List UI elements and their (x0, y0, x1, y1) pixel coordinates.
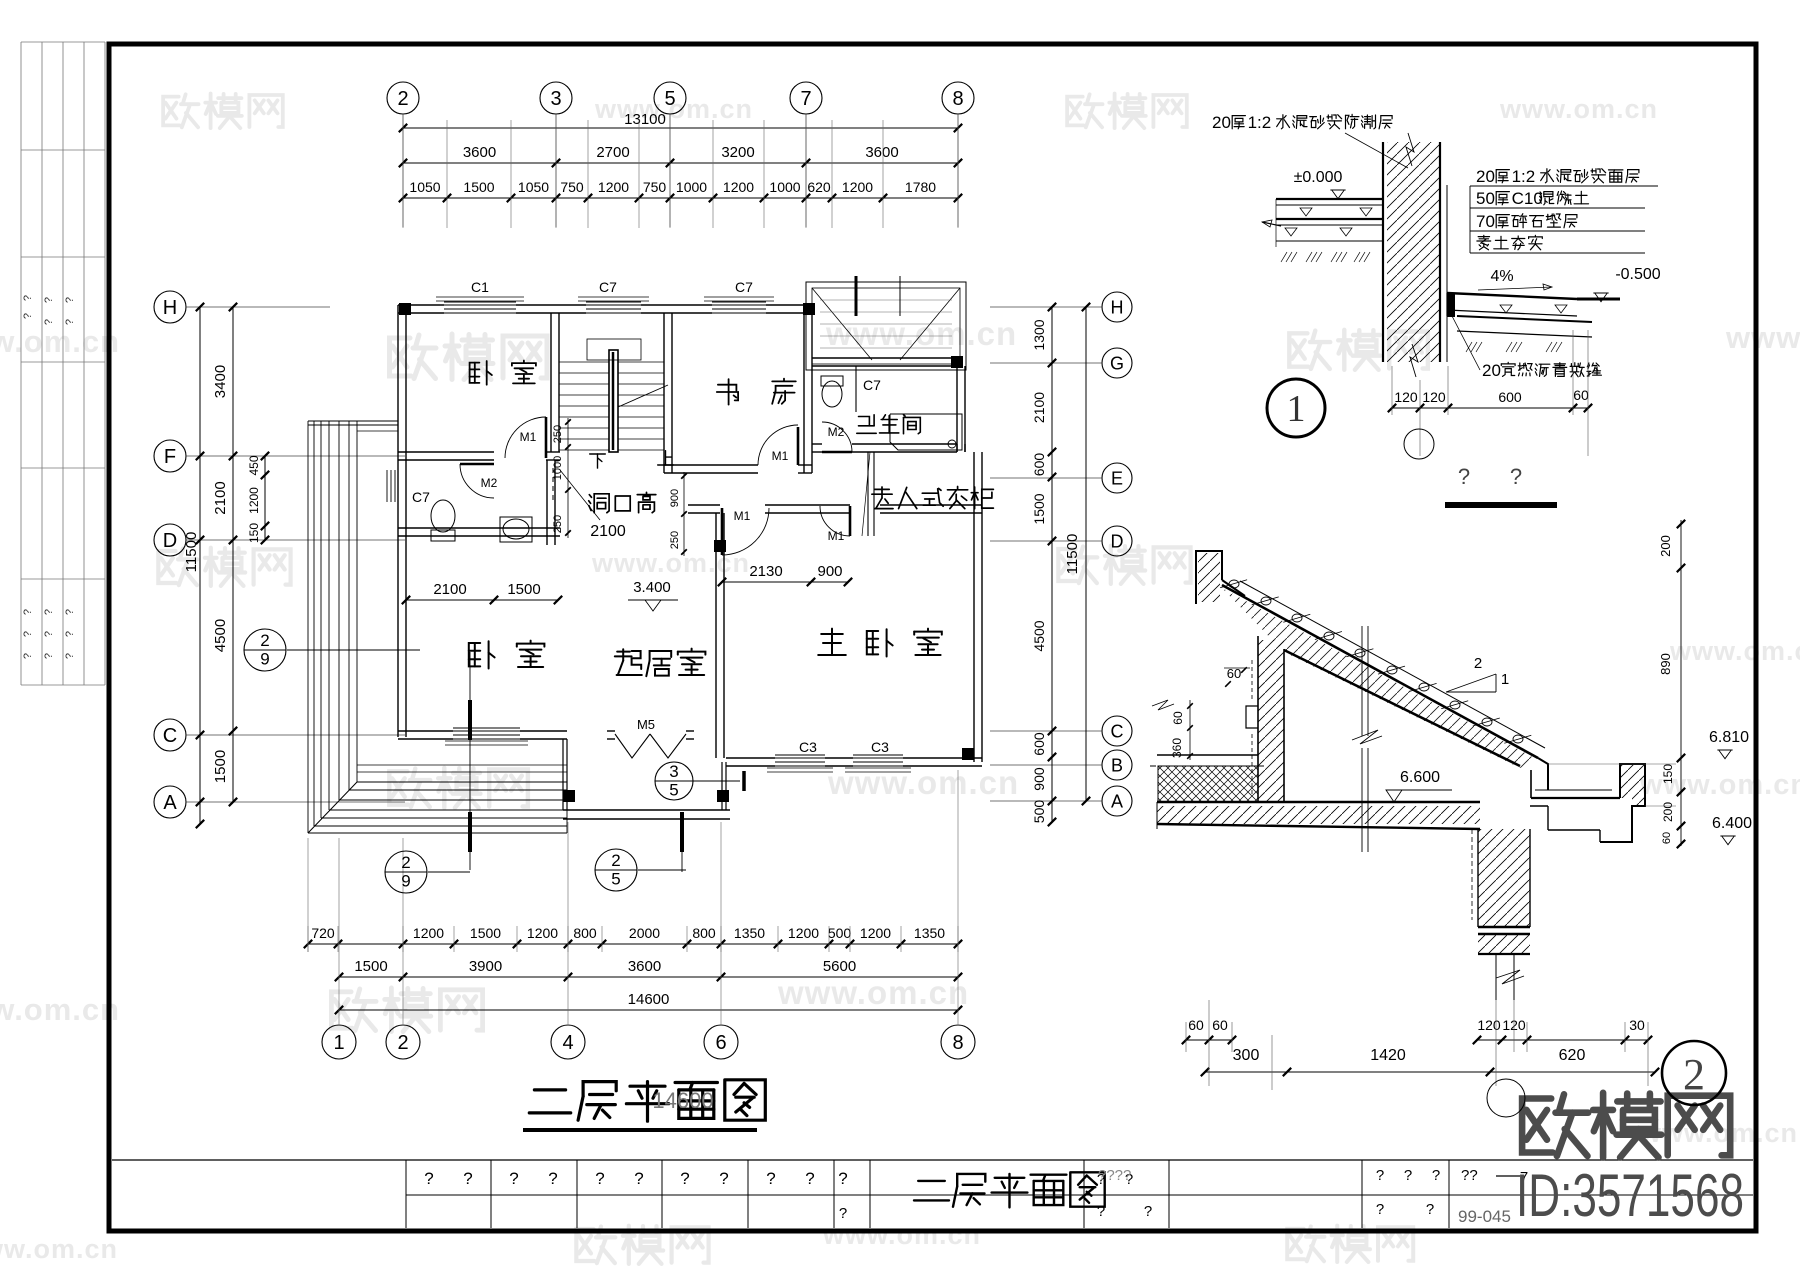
svg-text:C1: C1 (471, 279, 489, 295)
svg-text:1500: 1500 (212, 750, 229, 783)
svg-text:?: ? (64, 631, 76, 637)
svg-text:6.810: 6.810 (1709, 729, 1749, 746)
svg-text:13100: 13100 (624, 111, 666, 128)
svg-text:9: 9 (260, 650, 269, 669)
svg-text:450: 450 (247, 455, 261, 475)
svg-text:60: 60 (1188, 1017, 1204, 1033)
svg-text:4500: 4500 (212, 619, 229, 652)
svg-text:?: ? (766, 1169, 775, 1188)
svg-text:G: G (1110, 353, 1124, 373)
svg-text:F: F (164, 446, 176, 468)
svg-text:4%: 4% (1490, 268, 1513, 285)
svg-text:?: ? (1432, 1167, 1440, 1184)
svg-text:6: 6 (715, 1032, 726, 1054)
svg-text:1050: 1050 (409, 179, 440, 195)
svg-text:?: ? (463, 1169, 472, 1188)
svg-text:C7: C7 (863, 377, 881, 393)
svg-text:www.om.cn: www.om.cn (1499, 94, 1658, 124)
svg-text:?: ? (64, 609, 76, 615)
svg-text:5: 5 (669, 781, 678, 800)
svg-text:2: 2 (611, 851, 620, 870)
svg-text:1000: 1000 (552, 456, 564, 480)
svg-text:?: ? (595, 1169, 604, 1188)
svg-text:?: ? (424, 1169, 433, 1188)
svg-text:1200: 1200 (247, 487, 261, 514)
svg-text:A: A (1111, 791, 1123, 811)
svg-text:5: 5 (664, 88, 675, 110)
svg-text:?: ? (1144, 1203, 1152, 1220)
svg-text:720: 720 (311, 925, 335, 941)
svg-text:?: ? (43, 319, 55, 325)
svg-text:?: ? (1510, 464, 1522, 489)
svg-text:M1: M1 (734, 509, 751, 523)
svg-text:ID:3571568: ID:3571568 (1516, 1162, 1744, 1229)
svg-text:14600: 14600 (652, 1088, 713, 1113)
svg-text:M1: M1 (772, 449, 789, 463)
svg-text:?: ? (22, 313, 34, 319)
svg-text:800: 800 (692, 925, 716, 941)
svg-text:14600: 14600 (628, 991, 670, 1008)
svg-text:20: 20 (1482, 361, 1501, 380)
svg-text:3: 3 (669, 762, 678, 781)
svg-text:4500: 4500 (1031, 620, 1047, 651)
svg-text:200: 200 (1661, 802, 1675, 822)
svg-text:900: 900 (817, 563, 842, 580)
svg-text:?: ? (22, 653, 34, 659)
svg-text:?: ? (548, 1169, 557, 1188)
svg-text:99-045: 99-045 (1458, 1207, 1511, 1226)
svg-text:60: 60 (1212, 1017, 1228, 1033)
svg-text:1780: 1780 (905, 179, 936, 195)
svg-text:1500: 1500 (354, 958, 387, 975)
svg-text:?: ? (22, 631, 34, 637)
svg-text:?: ? (43, 297, 55, 303)
svg-text:1200: 1200 (860, 925, 891, 941)
svg-text:50: 50 (1476, 189, 1495, 208)
svg-text:1420: 1420 (1370, 1047, 1406, 1064)
svg-text:www.om.cn: www.om.cn (1725, 320, 1800, 355)
svg-text:?: ? (1404, 1167, 1412, 1184)
svg-text:600: 600 (1031, 732, 1047, 756)
svg-text:300: 300 (1233, 1047, 1260, 1064)
svg-text:M1: M1 (520, 430, 537, 444)
svg-text:1050: 1050 (518, 179, 549, 195)
svg-text:?: ? (43, 653, 55, 659)
svg-text:M2: M2 (481, 476, 498, 490)
svg-text:?: ? (838, 1169, 847, 1188)
svg-text:www.om.cn: www.om.cn (777, 974, 969, 1011)
svg-text:20: 20 (1476, 167, 1495, 186)
svg-text:750: 750 (560, 179, 584, 195)
svg-text:M2: M2 (828, 425, 845, 439)
svg-text:www.om.cn: www.om.cn (827, 764, 1019, 801)
svg-text:1500: 1500 (1031, 493, 1047, 524)
svg-text:B: B (1111, 755, 1123, 775)
svg-text:?: ? (1426, 1201, 1434, 1218)
svg-text:60: 60 (1661, 832, 1673, 844)
svg-text:C7: C7 (412, 489, 430, 505)
svg-text:3: 3 (550, 88, 561, 110)
svg-text:70: 70 (1476, 212, 1495, 231)
svg-text:120: 120 (1477, 1017, 1501, 1033)
svg-text:30: 30 (1629, 1017, 1645, 1033)
svg-text:500: 500 (1031, 800, 1047, 824)
svg-text:±0.000: ±0.000 (1294, 169, 1343, 186)
svg-text:??: ?? (1461, 1167, 1478, 1184)
svg-text:150: 150 (1661, 764, 1675, 784)
svg-text:5600: 5600 (823, 958, 856, 975)
svg-text:2: 2 (401, 853, 410, 872)
svg-text:C: C (163, 725, 177, 747)
svg-text:www.om.cn: www.om.cn (1669, 636, 1800, 666)
svg-text:1200: 1200 (788, 925, 819, 941)
svg-text:2100: 2100 (1031, 392, 1047, 423)
svg-text:3400: 3400 (212, 365, 229, 398)
svg-text:2100: 2100 (590, 523, 626, 540)
svg-text:3.400: 3.400 (633, 579, 671, 596)
svg-text:4: 4 (562, 1032, 573, 1054)
svg-text:A: A (163, 792, 177, 814)
svg-text:890: 890 (1658, 653, 1673, 675)
svg-text:2700: 2700 (596, 144, 629, 161)
svg-text:8: 8 (952, 88, 963, 110)
svg-text:800: 800 (573, 925, 597, 941)
svg-text:www.om.cn: www.om.cn (0, 324, 120, 359)
svg-text:D: D (163, 530, 177, 552)
svg-text:?: ? (22, 295, 34, 301)
svg-text:200: 200 (1658, 535, 1673, 557)
svg-text:?: ? (43, 631, 55, 637)
svg-text:?: ? (509, 1169, 518, 1188)
svg-text:?: ? (64, 653, 76, 659)
svg-text:1: 1 (1501, 671, 1509, 688)
svg-text:?: ? (1376, 1201, 1384, 1218)
svg-text:60: 60 (1171, 711, 1185, 725)
svg-text:?: ? (43, 609, 55, 615)
svg-text:600: 600 (1498, 389, 1522, 405)
svg-text:H: H (1111, 297, 1124, 317)
svg-text:120: 120 (1394, 389, 1418, 405)
svg-text:1: 1 (1287, 388, 1306, 430)
svg-text:1000: 1000 (676, 179, 707, 195)
svg-text:H: H (163, 297, 177, 319)
svg-text:www.om.cn: www.om.cn (0, 1234, 118, 1264)
svg-text:1350: 1350 (914, 925, 945, 941)
svg-text:9: 9 (401, 872, 410, 891)
svg-text:-0.500: -0.500 (1615, 266, 1660, 283)
svg-text:2100: 2100 (433, 581, 466, 598)
svg-text:8: 8 (952, 1032, 963, 1054)
svg-text:www.om.cn: www.om.cn (591, 548, 750, 578)
svg-text:500: 500 (828, 925, 852, 941)
svg-text:?: ? (1376, 1167, 1384, 1184)
svg-text:M1: M1 (828, 529, 845, 543)
svg-text:1350: 1350 (734, 925, 765, 941)
svg-text:2100: 2100 (212, 481, 229, 514)
svg-text:1000: 1000 (769, 179, 800, 195)
svg-text:150: 150 (247, 523, 261, 543)
svg-text:?: ? (805, 1169, 814, 1188)
svg-text:www.om.cn: www.om.cn (0, 992, 120, 1027)
svg-text:?: ? (839, 1205, 847, 1222)
svg-text:6.600: 6.600 (1400, 769, 1440, 786)
svg-text:3600: 3600 (463, 144, 496, 161)
svg-text:6.400: 6.400 (1712, 815, 1752, 832)
svg-text:2: 2 (1683, 1050, 1705, 1099)
svg-text:620: 620 (807, 179, 831, 195)
svg-text:2000: 2000 (629, 925, 660, 941)
svg-text:E: E (1111, 468, 1123, 488)
svg-text:5: 5 (611, 870, 620, 889)
svg-text:360: 360 (1170, 738, 1184, 758)
svg-text:????: ???? (1098, 1167, 1131, 1184)
svg-text:C3: C3 (871, 739, 889, 755)
svg-text:250: 250 (669, 531, 681, 549)
svg-text:?: ? (634, 1169, 643, 1188)
svg-text:?: ? (22, 609, 34, 615)
svg-text:www.om.cn: www.om.cn (822, 1220, 981, 1250)
svg-text:3600: 3600 (865, 144, 898, 161)
svg-text:?: ? (1458, 464, 1470, 489)
svg-text:C7: C7 (735, 279, 753, 295)
svg-text:1200: 1200 (598, 179, 629, 195)
svg-text:1300: 1300 (1031, 319, 1047, 350)
svg-text:250: 250 (552, 515, 564, 533)
svg-text:?: ? (719, 1169, 728, 1188)
svg-text:750: 750 (643, 179, 667, 195)
svg-text:1500: 1500 (463, 179, 494, 195)
svg-text:7: 7 (800, 88, 811, 110)
svg-text:20: 20 (1212, 113, 1231, 132)
svg-text:2130: 2130 (749, 563, 782, 580)
svg-text:900: 900 (669, 489, 681, 507)
svg-text:900: 900 (1031, 767, 1047, 791)
svg-text:?: ? (64, 319, 76, 325)
svg-text:D: D (1111, 531, 1124, 551)
svg-text:11500: 11500 (183, 532, 200, 573)
svg-text:C10: C10 (1512, 189, 1543, 208)
svg-text:250: 250 (552, 425, 564, 443)
svg-text:C7: C7 (599, 279, 617, 295)
svg-text:1500: 1500 (507, 581, 540, 598)
svg-text:1200: 1200 (527, 925, 558, 941)
svg-text:3900: 3900 (469, 958, 502, 975)
svg-text:2: 2 (1474, 655, 1482, 672)
svg-text:1200: 1200 (723, 179, 754, 195)
svg-text:C3: C3 (799, 739, 817, 755)
svg-text:3200: 3200 (721, 144, 754, 161)
svg-text:1:2: 1:2 (1248, 113, 1272, 132)
svg-text:2: 2 (260, 631, 269, 650)
svg-text:C: C (1111, 721, 1124, 741)
svg-text:M5: M5 (637, 717, 655, 732)
svg-text:3600: 3600 (628, 958, 661, 975)
svg-text:60: 60 (1573, 387, 1589, 403)
svg-text:1: 1 (333, 1032, 344, 1054)
svg-text:2: 2 (397, 88, 408, 110)
svg-text:1:2: 1:2 (1512, 167, 1536, 186)
svg-text:600: 600 (1031, 453, 1047, 477)
svg-text:11500: 11500 (1064, 534, 1081, 575)
svg-text:1500: 1500 (470, 925, 501, 941)
svg-text:?: ? (680, 1169, 689, 1188)
svg-text:120: 120 (1422, 389, 1446, 405)
svg-text:2: 2 (397, 1032, 408, 1054)
svg-text:1200: 1200 (842, 179, 873, 195)
svg-text:www.om.cn: www.om.cn (825, 315, 1017, 352)
svg-text:620: 620 (1559, 1047, 1586, 1064)
svg-text:1200: 1200 (413, 925, 444, 941)
svg-text:?: ? (64, 297, 76, 303)
